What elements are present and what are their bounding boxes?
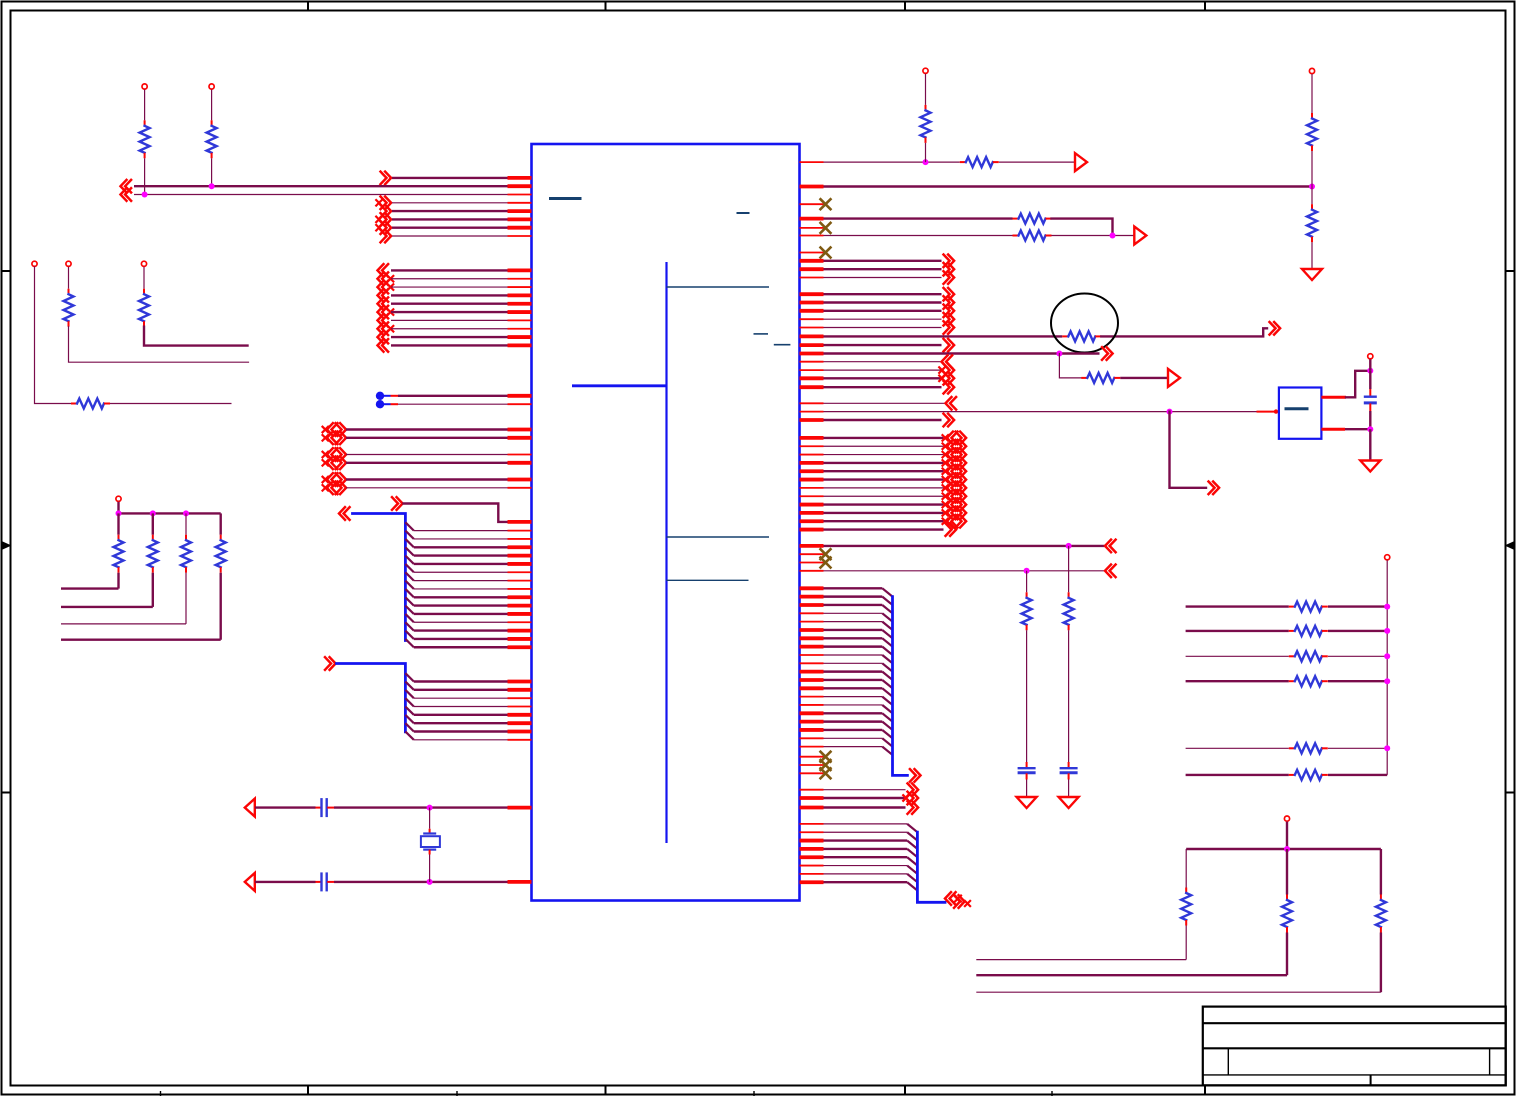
wire W73 <box>61 587 119 589</box>
port arrow P18 <box>378 339 389 352</box>
no-connect NC3 <box>821 248 831 258</box>
power symbol VCC 4 <box>66 261 71 266</box>
port arrow P52 <box>943 443 949 449</box>
power symbol VCC 6 <box>116 496 121 501</box>
pin 83 <box>800 454 824 456</box>
port arrow P4 <box>381 213 392 226</box>
wire W6 <box>392 218 508 220</box>
IC U1 internal dash b <box>774 344 791 346</box>
wire W155 <box>824 679 883 681</box>
no-connect NC5 <box>821 558 831 568</box>
power symbol VCC 7 <box>923 68 928 73</box>
wire W25 <box>391 319 508 321</box>
resistor R27 <box>1286 895 1288 901</box>
pin 6 <box>508 217 532 221</box>
wire W183 <box>1328 680 1387 682</box>
port arrow P26 <box>339 507 350 520</box>
wire W101 <box>824 310 942 312</box>
wire W21 <box>391 286 508 288</box>
wire W157 <box>824 696 883 698</box>
resistor R6 <box>118 535 120 541</box>
port arrow P42 <box>1102 347 1113 360</box>
border zone tick left <box>2 792 11 794</box>
pin 7 <box>508 226 532 230</box>
ground GND3 <box>1059 797 1079 808</box>
bus entry E46 <box>907 841 917 849</box>
junction J12 <box>1167 409 1173 415</box>
power symbol VCC 8 <box>1309 68 1314 73</box>
no-connect NC2 <box>821 223 831 233</box>
wire W61 <box>414 730 508 732</box>
pin 94 <box>800 553 824 555</box>
IC U1 label underline <box>549 197 582 200</box>
pin 82 <box>800 445 824 447</box>
wire W176 <box>1186 605 1289 607</box>
wire W5 <box>392 210 508 212</box>
wire W33 <box>346 428 508 430</box>
bus entry E33 <box>882 663 892 671</box>
port arrow P59 <box>943 502 949 508</box>
port arrow P16 <box>378 322 389 335</box>
bus entry E30 <box>882 638 892 646</box>
bus entry E1 <box>405 522 413 530</box>
wire W28 <box>391 344 508 346</box>
pin 80 <box>800 418 824 422</box>
pin 127 <box>800 855 824 859</box>
junction J2 <box>209 183 215 189</box>
resistor R17 <box>1081 377 1087 379</box>
wire W163 <box>824 746 883 748</box>
wire W62 <box>414 739 508 741</box>
wire W170 <box>824 848 908 850</box>
wire W161 <box>824 729 883 731</box>
wire W177 <box>1328 605 1387 607</box>
pin 93 <box>800 544 824 548</box>
no-connect NC1 <box>821 199 831 209</box>
border zone tick right <box>1506 270 1515 272</box>
wire W17 <box>143 267 145 289</box>
wire W120 <box>1345 428 1370 430</box>
port arrow P51 <box>943 435 949 441</box>
pin 39 <box>508 621 532 623</box>
pin 49 <box>508 730 532 734</box>
power symbol VCC 3 <box>32 261 37 266</box>
port arrow P29 <box>245 873 255 891</box>
port arrow P13 <box>378 297 389 310</box>
port arrow P66 <box>908 783 919 796</box>
capacitor C3 <box>1026 762 1028 768</box>
bus entry E40 <box>882 722 892 730</box>
bus entry E41 <box>882 730 892 738</box>
resistor R18 <box>1068 592 1070 598</box>
wire W94 <box>824 235 1013 237</box>
wire W160 <box>824 720 883 722</box>
pin 102 <box>800 628 824 632</box>
pin 5 <box>508 209 532 213</box>
resistor R13 <box>1311 204 1313 210</box>
bus entry E25 <box>882 597 892 605</box>
wire W98 <box>824 277 942 279</box>
wire W169 <box>824 839 908 841</box>
wire W58 <box>414 705 508 707</box>
wire W45 <box>414 571 508 573</box>
bus entry E24 <box>882 588 892 596</box>
wire W135 <box>824 528 944 530</box>
pin 106 <box>800 662 824 664</box>
port arrow P37 <box>944 305 955 318</box>
wire W30 <box>398 395 508 397</box>
junction J13 <box>1367 368 1373 374</box>
IC U1 internal bus vertical <box>665 262 667 843</box>
wire W3 <box>134 194 508 196</box>
pin 100 <box>800 612 824 614</box>
wire W178 <box>1186 630 1289 632</box>
wire W121 <box>1369 429 1371 459</box>
junction J10 <box>1110 233 1116 239</box>
wire W108 <box>1059 354 1081 378</box>
wire W185 <box>1328 747 1387 749</box>
border zone tick left <box>2 270 11 272</box>
pin 77 <box>1257 411 1277 413</box>
pin 89 <box>800 503 824 507</box>
wire W123 <box>824 419 942 421</box>
port arrow P30 <box>1075 153 1087 171</box>
bus entry E3 <box>405 539 413 547</box>
pin 29 <box>508 538 532 540</box>
wire W134 <box>824 520 944 522</box>
pin 120 <box>800 789 824 791</box>
pin 4 <box>508 202 532 204</box>
port arrow P58 <box>943 493 949 499</box>
resistor R11 <box>925 105 927 111</box>
power symbol VCC 11 <box>1284 816 1289 821</box>
wire W57 <box>414 697 508 699</box>
wire W196 <box>1380 849 1382 895</box>
wire W66 <box>334 881 508 883</box>
wire W148 <box>824 621 883 623</box>
bus entry E14 <box>405 631 413 639</box>
wire W12 <box>211 158 213 186</box>
wire W139 <box>1068 630 1070 762</box>
bus entry E28 <box>882 622 892 630</box>
pin 67 <box>800 327 824 329</box>
pin 10 <box>508 278 532 280</box>
wire W100 <box>824 301 942 303</box>
wire W89 <box>1311 151 1313 187</box>
wire W88 <box>1311 74 1313 113</box>
wire W74 <box>152 513 154 534</box>
wire W37 <box>346 478 508 480</box>
port arrow P39 <box>944 321 955 334</box>
wire W2 <box>134 185 508 187</box>
resistor R22 <box>1289 655 1295 657</box>
bus entry E39 <box>882 713 892 721</box>
ground GND2 <box>1360 461 1380 472</box>
pin 51 <box>508 806 532 810</box>
pin 15 <box>508 319 532 321</box>
pin 75 <box>800 402 824 404</box>
port arrow P47 <box>944 381 955 394</box>
wire W26 <box>391 328 508 330</box>
resistor R28 <box>1380 895 1382 901</box>
wire W149 <box>824 629 883 631</box>
wire W78 <box>185 573 187 624</box>
wire W171 <box>824 856 908 858</box>
wire W144 <box>824 587 883 589</box>
wire W197 <box>1380 933 1382 993</box>
pin 22 <box>508 436 532 440</box>
pin 18 <box>508 343 532 347</box>
wire W164 <box>824 789 906 791</box>
resistor R12 <box>1311 113 1313 119</box>
pin 34 <box>508 580 532 582</box>
pin 56 <box>800 227 824 229</box>
IC U1 internal dash a <box>754 333 769 335</box>
wire W49 <box>414 604 508 606</box>
bus entry E20 <box>405 707 413 715</box>
pin 48 <box>508 721 532 725</box>
IC U1 internal branch 3 <box>667 536 770 538</box>
port arrow P48 <box>946 397 957 410</box>
pin 38 <box>508 612 532 616</box>
wire W70 <box>119 512 221 514</box>
junction J8 <box>923 159 929 165</box>
bus entry E43 <box>882 747 892 755</box>
wire W43 <box>414 554 508 556</box>
pin 109 <box>800 686 824 690</box>
port arrow P67 <box>908 792 919 805</box>
wire W143 <box>1026 780 1028 797</box>
pin 37 <box>508 604 532 608</box>
wire W198 <box>976 991 1381 993</box>
pin 43 <box>508 680 532 684</box>
wire W20 <box>391 278 508 280</box>
port arrow P54 <box>943 460 949 466</box>
no-connect NC7 <box>821 760 831 770</box>
wire W90 <box>1311 187 1313 205</box>
pin 98 <box>800 595 824 599</box>
pin 57 <box>800 217 824 221</box>
wire W154 <box>824 670 883 672</box>
pin 59 <box>800 252 824 254</box>
pin 20 <box>508 403 532 405</box>
wire W52 <box>414 629 508 631</box>
port arrow P19 <box>323 427 329 433</box>
port arrow P22 <box>323 460 329 466</box>
pin 33 <box>508 571 532 573</box>
junction J14 <box>1367 426 1373 432</box>
wire W111 <box>824 369 942 371</box>
wire W75 <box>152 573 154 607</box>
wire W55 <box>414 680 508 682</box>
port arrow P43 <box>1168 369 1180 387</box>
wire W195 <box>976 974 1287 976</box>
pin 3 <box>508 194 532 196</box>
pin 130 <box>800 880 824 884</box>
pin 129 <box>800 873 824 875</box>
wire W96 <box>824 260 942 262</box>
wire W40 <box>414 530 508 532</box>
bus entry E27 <box>882 613 892 621</box>
bus entry E18 <box>405 690 413 698</box>
port arrow P24 <box>323 485 329 491</box>
wire W133 <box>824 512 944 514</box>
wire W119 <box>1369 411 1371 429</box>
port arrow P12 <box>378 289 389 302</box>
pin 79 <box>1321 428 1345 431</box>
pin 52 <box>508 880 532 884</box>
pin 41 <box>508 637 532 641</box>
wire W72 <box>117 573 119 589</box>
wire W189 <box>1186 848 1381 850</box>
pin 54 <box>800 185 824 189</box>
IC U1 internal branch 2 <box>572 384 667 387</box>
wire W10 <box>144 158 146 194</box>
bus entry E38 <box>882 705 892 713</box>
pin 97 <box>800 586 824 590</box>
wire W42 <box>414 546 508 548</box>
pin 87 <box>800 487 824 489</box>
junction J20 <box>1384 678 1390 684</box>
port arrow P55 <box>943 468 949 474</box>
bus entry E49 <box>907 866 917 874</box>
bus B4 <box>917 832 945 902</box>
wire W39 <box>404 504 508 522</box>
wire W174 <box>824 881 908 883</box>
bus entry E22 <box>405 723 413 731</box>
bus B2 <box>337 664 406 732</box>
pin 69 <box>800 343 824 347</box>
wire W150 <box>824 637 883 639</box>
pin 124 <box>800 831 824 833</box>
port arrow P57 <box>943 485 949 491</box>
border zone tick top <box>605 2 607 11</box>
wire W112 <box>824 377 942 379</box>
title block line 3 <box>1203 1074 1506 1076</box>
border minor tick bottom <box>753 1091 755 1096</box>
wire W168 <box>824 831 908 833</box>
pin 116 <box>800 746 824 748</box>
wire W35 <box>346 454 508 456</box>
wire W18 <box>144 327 248 346</box>
junction J7 <box>183 510 189 516</box>
node dot <box>376 400 384 408</box>
wire W41 <box>414 538 508 540</box>
wire W118 <box>1369 371 1371 389</box>
wire W117 <box>1369 359 1371 371</box>
title block divider b <box>1489 1048 1491 1075</box>
port arrow P10 <box>378 272 389 285</box>
border minor tick bottom <box>456 1091 458 1096</box>
resistor R21 <box>1289 630 1295 632</box>
power symbol VCC 1 <box>142 84 147 89</box>
wire W106 <box>824 344 942 346</box>
wire W86 <box>925 143 927 162</box>
pin 47 <box>508 713 532 717</box>
crystal Y1 <box>429 829 431 834</box>
wire W128 <box>824 470 944 472</box>
border zone tick bottom <box>605 1086 607 1095</box>
wire W116 <box>1346 371 1370 398</box>
port arrow P41 <box>944 339 955 352</box>
port arrow P14 <box>378 306 389 319</box>
bus entry E4 <box>405 547 413 555</box>
border zone tick right <box>1506 792 1515 794</box>
pin 1 <box>508 176 532 180</box>
port arrow P27 <box>325 657 336 670</box>
wire W65 <box>255 881 316 883</box>
IC U1 internal branch 4 <box>667 579 749 581</box>
port arrow P56 <box>943 477 949 483</box>
wire W92 <box>824 217 1013 219</box>
port arrow P40 <box>1270 322 1281 335</box>
port arrow P64 <box>1105 565 1116 578</box>
wire W19 <box>391 269 508 271</box>
wire W193 <box>1286 849 1288 895</box>
resistor R9 <box>220 535 222 541</box>
pin 110 <box>800 696 824 698</box>
port arrow P23 <box>323 477 329 483</box>
no-connect NC6 <box>821 752 831 762</box>
port arrow P68 <box>908 801 919 814</box>
wire W63 <box>255 806 316 808</box>
resistor R7 <box>152 535 154 541</box>
pin 46 <box>508 705 532 707</box>
wire W67 <box>429 808 431 829</box>
port arrow P9 <box>378 264 389 277</box>
wire W188 <box>1286 822 1288 849</box>
bus entry E10 <box>405 597 413 605</box>
pin 62 <box>800 277 824 279</box>
junction J4 <box>427 879 433 885</box>
junction J17 <box>1384 604 1390 610</box>
bus entry E48 <box>907 857 917 865</box>
pin 12 <box>508 293 532 297</box>
resistor R19 <box>1026 592 1028 598</box>
port arrow P32 <box>944 255 955 268</box>
resistor R24 <box>1289 747 1295 749</box>
wire W165 <box>824 797 906 799</box>
wire W4 <box>392 202 508 204</box>
bus entry E44 <box>907 824 917 832</box>
IC U1 internal branch 1 <box>667 286 770 288</box>
wire W180 <box>1186 655 1289 657</box>
wire W175 <box>1386 560 1388 775</box>
wire W84 <box>999 161 1075 163</box>
pin 19 <box>508 394 532 398</box>
pin 101 <box>800 621 824 623</box>
pin 32 <box>508 562 532 566</box>
pin 96 <box>800 570 824 572</box>
wire W38 <box>346 487 508 489</box>
port arrow P34 <box>944 271 955 284</box>
wire W173 <box>824 873 908 875</box>
wire W132 <box>824 503 944 505</box>
resistor R4 <box>68 289 70 295</box>
pin 95 <box>800 562 824 564</box>
pin 25 <box>508 478 532 482</box>
bus entry E7 <box>405 572 413 580</box>
pin 111 <box>800 704 824 706</box>
wire W48 <box>414 596 508 598</box>
title block divider a <box>1227 1048 1229 1075</box>
bus entry E9 <box>405 589 413 597</box>
pin 78 <box>1321 396 1346 399</box>
title block line 1 <box>1203 1022 1506 1024</box>
bus entry E11 <box>405 606 413 614</box>
capacitor (series) <box>316 881 322 883</box>
port arrow P36 <box>944 296 955 309</box>
